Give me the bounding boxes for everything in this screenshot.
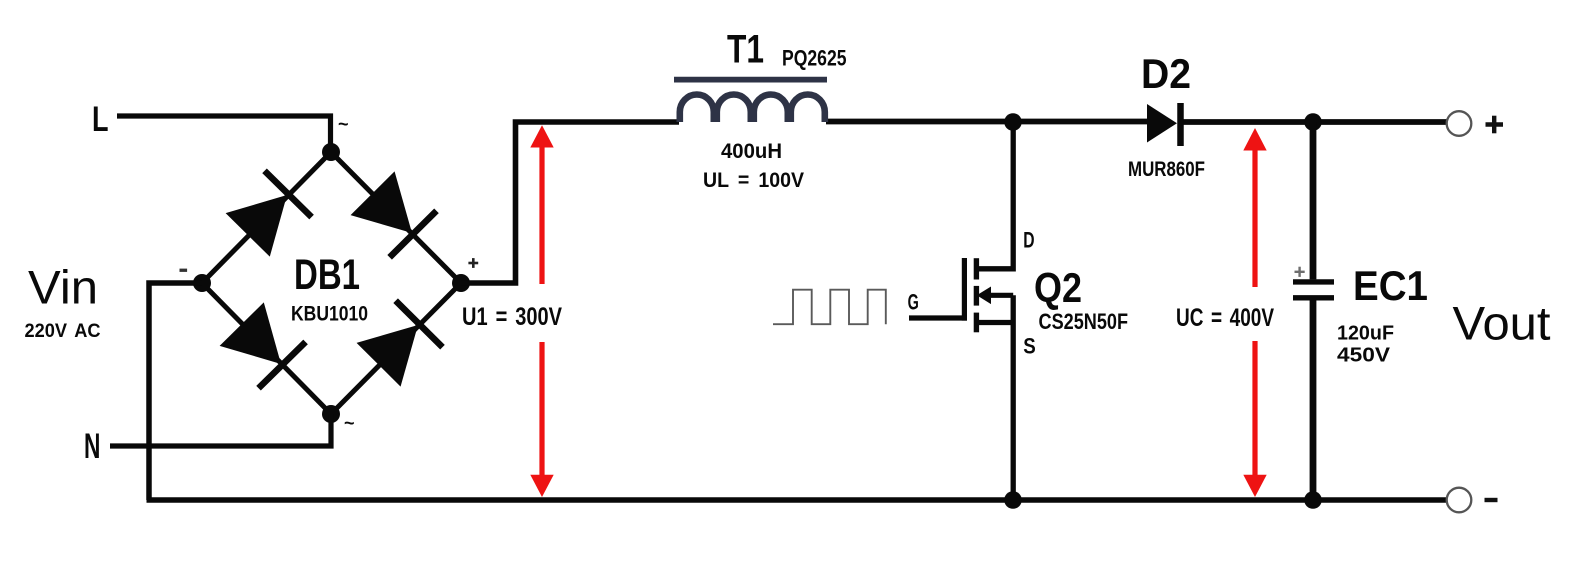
label + at right node	[468, 258, 478, 268]
node: bridge AC bottom	[322, 405, 340, 423]
node: bridge AC top	[322, 143, 340, 161]
wire: top rail inductor to D2	[826, 119, 1148, 125]
svg-text:400uH: 400uH	[721, 140, 782, 163]
inductor T1 winding	[680, 95, 825, 123]
svg-text:CS25N50F: CS25N50F	[1039, 309, 1129, 334]
svg-text:D2: D2	[1141, 50, 1191, 97]
svg-text:Vout: Vout	[1453, 297, 1551, 350]
wire: bridge edge left-bottom	[202, 283, 331, 414]
inductor T1 core bar	[674, 77, 827, 83]
svg-text:S: S	[1023, 333, 1036, 358]
wire: Q2 drain to top rail	[976, 122, 1013, 269]
svg-text:120uF: 120uF	[1337, 323, 1394, 345]
node: cap junction on bottom rail	[1304, 491, 1322, 509]
wire: bridge edge left-top	[202, 152, 331, 283]
svg-text:Vin: Vin	[28, 261, 98, 314]
transistor Q2 channel segment top	[974, 258, 979, 279]
diode DB1 top-right	[349, 170, 436, 257]
wire: bridge edge bottom-right	[331, 283, 461, 414]
wire: bridge edge top-right	[331, 152, 461, 283]
capacitor EC1	[1310, 122, 1317, 279]
diode DB1 bottom-right	[355, 301, 442, 388]
svg-text:~: ~	[338, 114, 349, 134]
wire: bridge plus up to top rail	[461, 122, 679, 283]
label - at left node	[180, 269, 188, 272]
transistor Q2 gate bar	[962, 258, 967, 321]
svg-text:L: L	[92, 100, 109, 139]
node: bridge plus	[452, 274, 470, 292]
svg-text:Q2: Q2	[1034, 264, 1082, 311]
svg-text:MUR860F: MUR860F	[1128, 158, 1205, 181]
svg-text:UC = 400V: UC = 400V	[1176, 304, 1274, 332]
node: source junction on bottom rail	[1004, 491, 1022, 509]
diode DB1 bottom-left	[218, 301, 305, 388]
transistor Q2 channel segment bottom	[974, 313, 979, 333]
wire: Q2 source down to bottom rail	[1011, 295, 1016, 500]
svg-text:D: D	[1023, 228, 1034, 253]
svg-text:N: N	[84, 427, 100, 466]
svg-text:G: G	[908, 289, 919, 314]
terminal - output	[1447, 488, 1472, 513]
svg-text:PQ2625: PQ2625	[782, 45, 847, 70]
svg-text:T1: T1	[727, 28, 764, 72]
wire: L input to bridge AC top	[117, 116, 331, 152]
wire: N input to bridge AC bottom	[110, 414, 331, 446]
svg-text:U1 = 300V: U1 = 300V	[462, 303, 562, 331]
terminal + output	[1447, 111, 1472, 136]
svg-text:220V AC: 220V AC	[25, 320, 101, 342]
wire: top rail D2 to output	[1183, 119, 1447, 125]
svg-text:450V: 450V	[1337, 345, 1391, 367]
diode D2	[1147, 104, 1177, 143]
transistor Q2 channel segment middle	[974, 286, 979, 306]
wire: bottom rail	[147, 497, 1447, 503]
svg-text:~: ~	[344, 413, 355, 433]
node: bridge minus	[193, 274, 211, 292]
wire: Q2 gate lead	[909, 315, 967, 320]
gate drive waveform	[773, 290, 886, 325]
diode DB1 top-left	[224, 171, 311, 258]
arrow UC (red)	[1243, 128, 1266, 497]
cap polarity plus	[1295, 267, 1305, 277]
transistor Q2 body arrow	[988, 293, 1013, 298]
wire: Q2 source horizontal	[976, 320, 1013, 325]
svg-text:UL = 100V: UL = 100V	[703, 169, 804, 192]
node: cap junction on top rail	[1304, 113, 1322, 131]
wire: bridge minus to bottom rail	[149, 283, 202, 500]
svg-text:DB1: DB1	[294, 251, 360, 299]
node: drain junction on top rail	[1004, 113, 1022, 131]
arrow U1 (red)	[530, 125, 553, 497]
svg-text:KBU1010: KBU1010	[291, 303, 368, 326]
svg-text:EC1: EC1	[1353, 262, 1428, 309]
